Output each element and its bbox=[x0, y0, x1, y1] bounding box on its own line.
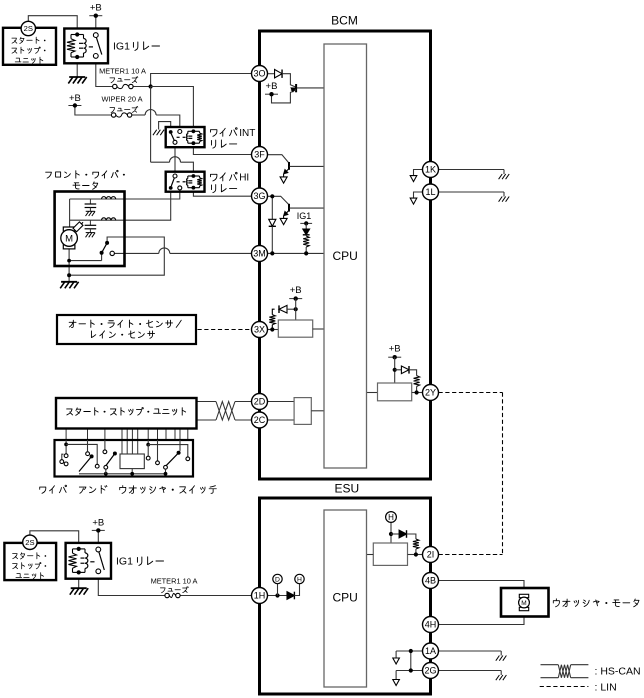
svg-text:2S: 2S bbox=[25, 538, 34, 547]
svg-text:IG1: IG1 bbox=[297, 211, 312, 221]
svg-text:1H: 1H bbox=[254, 591, 266, 601]
svg-text:METER1 10 A: METER1 10 A bbox=[99, 66, 146, 75]
svg-text:3F: 3F bbox=[254, 150, 265, 160]
svg-text:H: H bbox=[297, 576, 302, 583]
svg-text:4B: 4B bbox=[425, 576, 436, 586]
svg-text:H: H bbox=[388, 513, 394, 522]
svg-text:M: M bbox=[65, 234, 73, 245]
svg-text:4H: 4H bbox=[425, 620, 437, 630]
svg-text:D: D bbox=[275, 576, 280, 583]
svg-text:+B: +B bbox=[389, 344, 401, 355]
svg-text:1L: 1L bbox=[425, 187, 435, 197]
svg-text:: HS-CAN: : HS-CAN bbox=[595, 666, 641, 678]
svg-text:3G: 3G bbox=[253, 191, 265, 201]
svg-text:+B: +B bbox=[69, 93, 81, 104]
svg-text:3X: 3X bbox=[254, 325, 265, 335]
svg-text:1A: 1A bbox=[425, 646, 436, 656]
svg-text:CPU: CPU bbox=[333, 591, 358, 605]
svg-text:: LIN: : LIN bbox=[595, 681, 617, 693]
svg-text:BCM: BCM bbox=[331, 14, 358, 28]
svg-text:3M: 3M bbox=[253, 249, 266, 259]
svg-text:+B: +B bbox=[90, 3, 102, 14]
svg-text:WIPER 20 A: WIPER 20 A bbox=[101, 94, 142, 103]
svg-text:+B: +B bbox=[92, 517, 104, 528]
svg-text:IG1: IG1 bbox=[113, 41, 130, 53]
svg-text:+B: +B bbox=[290, 285, 302, 296]
svg-text:2Y: 2Y bbox=[425, 388, 436, 398]
svg-text:ESU: ESU bbox=[334, 482, 359, 496]
svg-text:3O: 3O bbox=[253, 69, 265, 79]
svg-text:2S: 2S bbox=[24, 24, 33, 33]
svg-text:METER1 10 A: METER1 10 A bbox=[151, 576, 198, 585]
svg-text:2C: 2C bbox=[254, 415, 266, 425]
svg-text:+B: +B bbox=[266, 81, 278, 92]
svg-text:IG1: IG1 bbox=[116, 556, 133, 568]
svg-text:M: M bbox=[521, 600, 526, 607]
svg-text:HI: HI bbox=[239, 172, 249, 183]
svg-text:2G: 2G bbox=[424, 666, 436, 676]
svg-text:2I: 2I bbox=[427, 550, 435, 560]
svg-text:CPU: CPU bbox=[333, 249, 358, 263]
svg-text:INT: INT bbox=[239, 128, 255, 139]
svg-text:1K: 1K bbox=[425, 165, 436, 175]
svg-text:2D: 2D bbox=[254, 397, 266, 407]
